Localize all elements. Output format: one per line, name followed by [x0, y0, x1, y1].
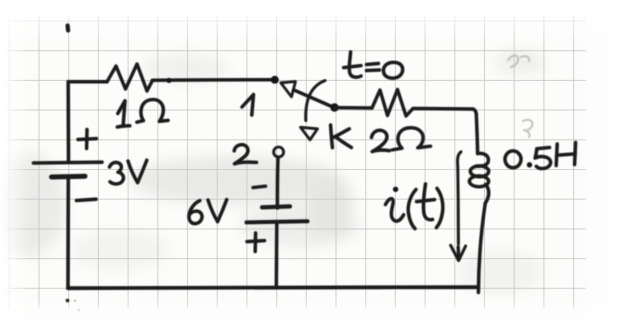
wire: contact 2 down to battery B2 — [276, 157, 280, 208]
inductor L1 (0.5H) coil — [469, 153, 488, 203]
wire: pivot to resistor R2 — [335, 106, 373, 110]
resistor R1 (1 ohm) zigzag — [107, 64, 153, 91]
label 0.5H (inductance) — [505, 143, 576, 169]
switch contact 2 terminal circle — [274, 147, 284, 157]
switch K open arrowhead at position 1 — [281, 82, 296, 97]
wire: battery B2 to bottom wire — [275, 223, 279, 288]
label i(t) (current) — [386, 184, 443, 229]
wire: R1 to switch contact 1 — [153, 78, 273, 82]
switch open arrowhead at position 2 — [301, 127, 318, 140]
wire: inductor to bottom-right corner — [478, 204, 485, 293]
stray dots bottom-left — [66, 299, 80, 311]
switch throw arc — [306, 81, 325, 121]
resistor R2 (2 ohm) zigzag — [372, 90, 413, 117]
ink blob on top wire — [166, 78, 171, 83]
wire: R2 to top-right corner — [413, 109, 476, 115]
label t=o (switching time) — [344, 52, 403, 78]
switch K blade — [294, 90, 335, 108]
switch contact 1 blob — [271, 76, 279, 84]
left vertical wire lower (battery B1 to bottom wire) — [66, 177, 70, 288]
stray tick above top-left corner — [65, 26, 70, 31]
ink — [34, 26, 576, 311]
current arrowhead — [451, 245, 466, 260]
bottom wire — [68, 287, 478, 288]
label 1 (throw position) — [242, 95, 254, 116]
label 2 (throw position) — [234, 145, 256, 164]
label + (B1) — [78, 130, 97, 149]
battery B2 short plate (-) — [262, 206, 290, 207]
graph-paper grid — [6, 16, 586, 308]
faint smudge marks (pencil ghosts) — [508, 56, 532, 137]
label - (B2) — [253, 186, 266, 187]
battery B1 long plate (+) — [34, 160, 103, 164]
left vertical wire upper (corner to battery B1) — [66, 82, 70, 162]
paper smudges — [0, 50, 546, 294]
label - (B1) — [77, 199, 97, 200]
label K (switch name) — [331, 125, 352, 148]
wire: top-left corner to resistor R1 — [68, 80, 107, 84]
current arrow i(t) line — [458, 152, 461, 244]
battery B1 short plate (-) — [52, 174, 86, 180]
label 3V (B1 value) — [110, 160, 147, 184]
switch pivot dot — [330, 103, 338, 111]
battery B2 long plate (+) — [247, 221, 308, 222]
label 1Ω (value of R1) — [117, 100, 168, 127]
wire: right vertical down to inductor — [476, 114, 477, 154]
label + (B2) — [247, 233, 265, 252]
label 2Ω (value of R2) — [372, 128, 431, 152]
label 6V (B2 value) — [189, 200, 227, 224]
